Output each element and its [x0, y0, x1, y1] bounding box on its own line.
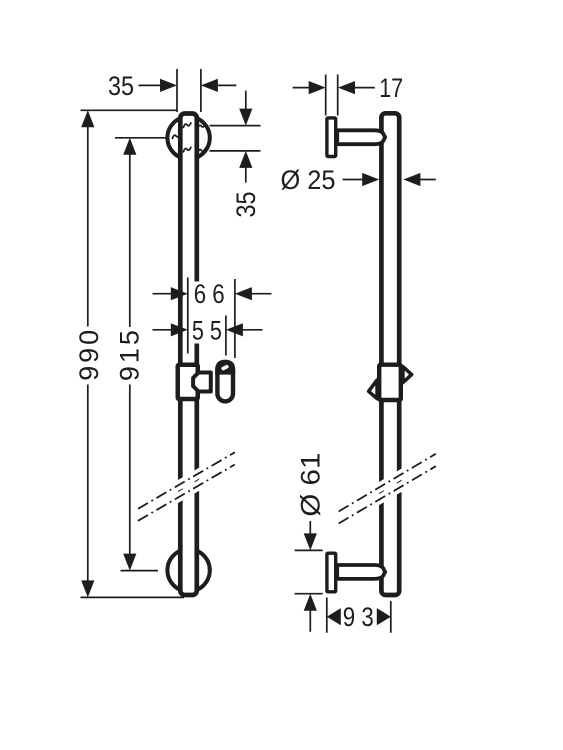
- dim 55: [153, 315, 263, 355]
- left view: screw thread marks in top escutcheon: [172, 123, 205, 153]
- left view: slider body: [178, 365, 198, 399]
- hose centerline right view: [339, 454, 436, 524]
- dim 35 vertical (escutcheon holes): [210, 91, 262, 218]
- dim 915: [114, 138, 166, 571]
- dim 990: [74, 110, 184, 597]
- left view: rail bar: [180, 114, 197, 596]
- svg-text:17: 17: [379, 73, 403, 103]
- left view: slider bracket: [202, 375, 208, 392]
- dim 35 top (rail width): [108, 69, 236, 112]
- right view: slider: [379, 365, 401, 400]
- dim 66: [153, 278, 272, 359]
- left view: holder cup: [217, 362, 233, 401]
- right view: cone side: [369, 380, 378, 399]
- svg-text:915: 915: [114, 330, 144, 381]
- dim 17: [293, 73, 404, 115]
- right view: rail bar: [381, 113, 399, 595]
- right view: top arm: [337, 130, 385, 144]
- left view: bottom wall escutcheon: [167, 549, 209, 591]
- svg-text:990: 990: [74, 330, 104, 381]
- left view: top wall escutcheon: [167, 117, 209, 159]
- svg-text:35: 35: [231, 192, 261, 218]
- left view: slider cone: [193, 373, 211, 392]
- right view: bottom wall plate: [327, 553, 336, 592]
- hose centerline left view: [138, 452, 235, 521]
- svg-text:Ø 61: Ø 61: [296, 453, 326, 517]
- dim 93: [327, 598, 391, 633]
- left view: gap in rail right edge at 66/55 labels: [193, 282, 203, 344]
- svg-text:6 6: 6 6: [194, 279, 225, 309]
- right view: bottom arm: [337, 565, 385, 579]
- dim Ø61: [295, 453, 326, 632]
- svg-text:35: 35: [108, 71, 134, 101]
- right view: top wall plate: [327, 118, 336, 157]
- right view: clamp lever side: [403, 367, 412, 383]
- svg-text:Ø 25: Ø 25: [281, 165, 336, 195]
- dim Ø25: [281, 165, 436, 195]
- left view: clamp lever (black cap): [215, 360, 235, 375]
- svg-text:9 3: 9 3: [343, 602, 374, 632]
- svg-text:5 5: 5 5: [192, 315, 222, 345]
